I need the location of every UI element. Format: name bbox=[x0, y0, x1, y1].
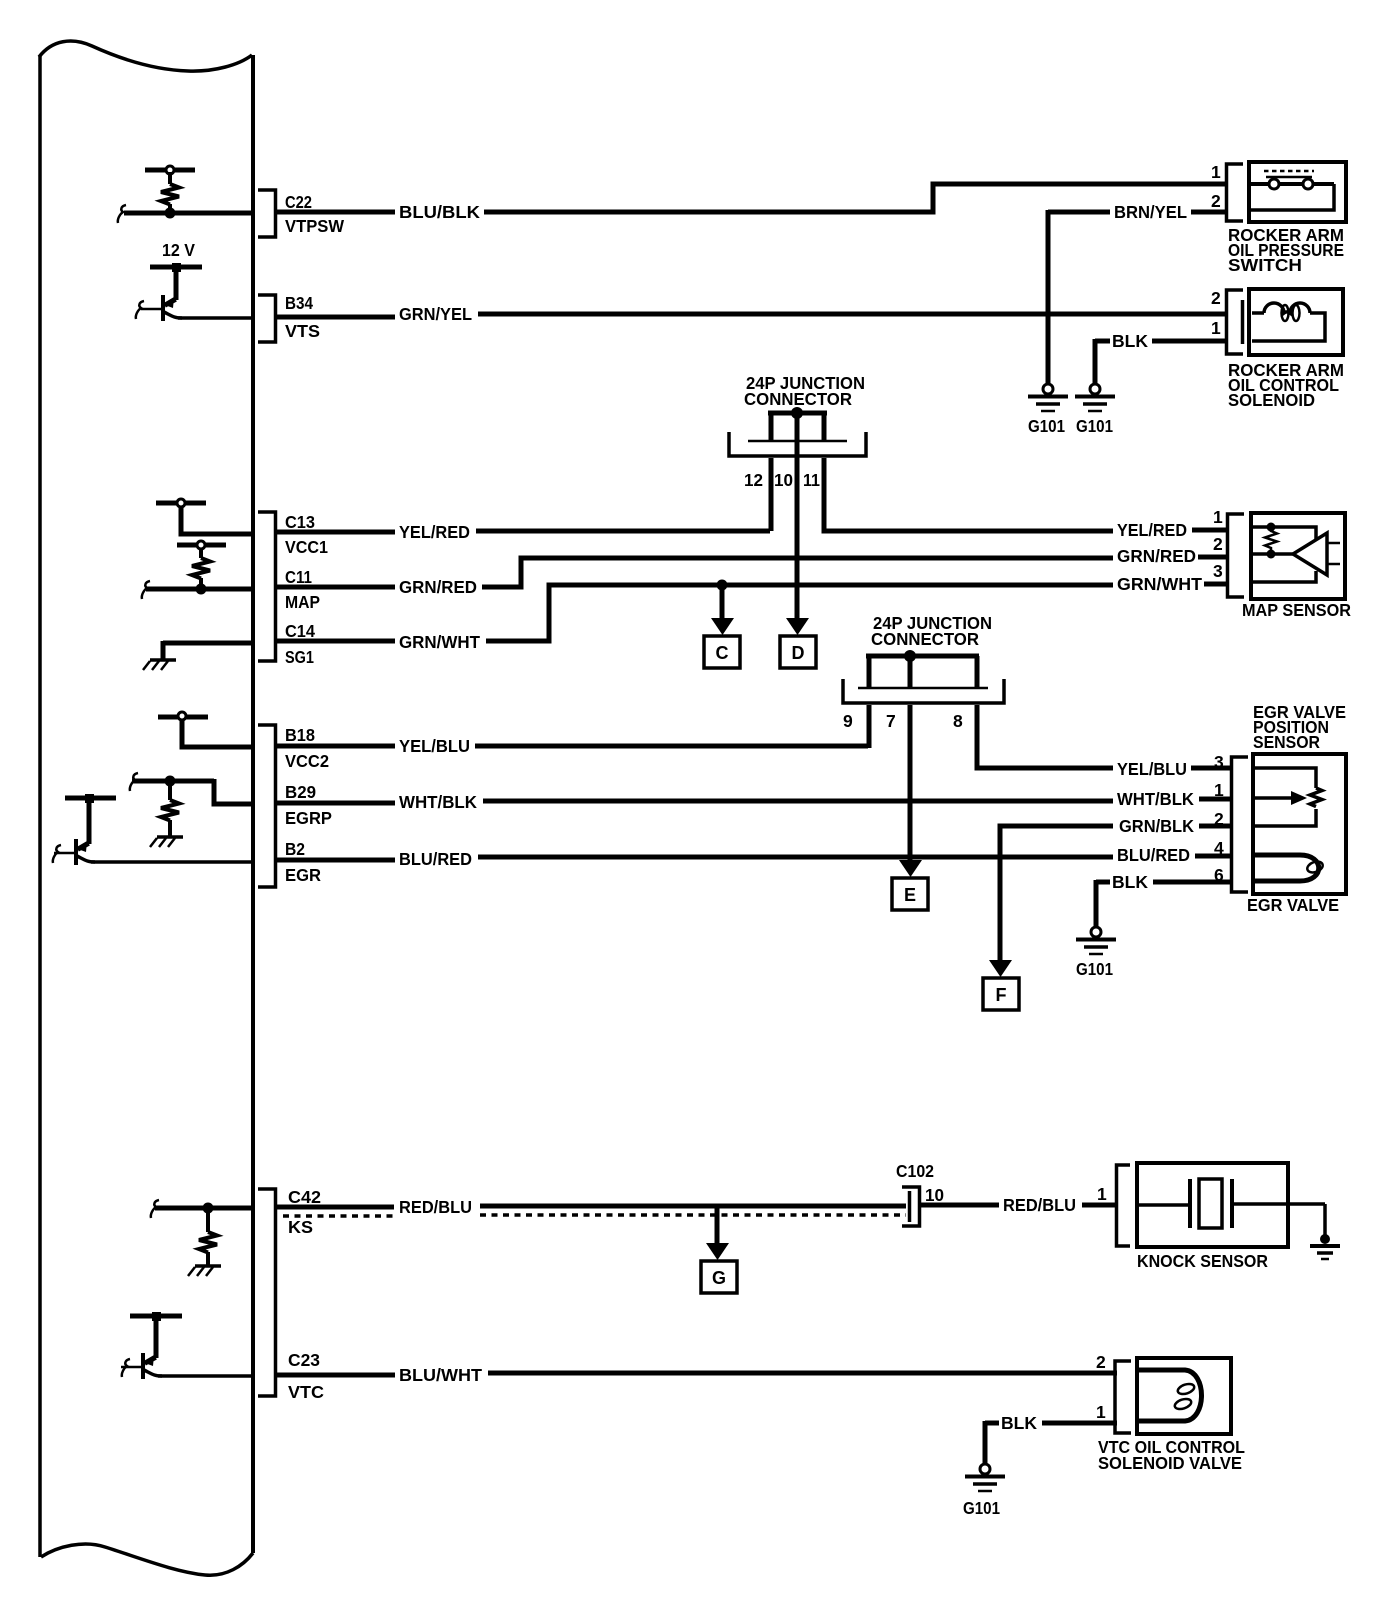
wire BLK from EGR valve pin 6 to ground bbox=[1096, 872, 1233, 927]
svg-text:RED/BLU: RED/BLU bbox=[1003, 1195, 1076, 1215]
pin label C13 / VCC1 bbox=[285, 512, 328, 557]
svg-text:2: 2 bbox=[1211, 191, 1221, 211]
svg-text:11: 11 bbox=[803, 470, 820, 490]
VTC oil control solenoid connector bbox=[1115, 1361, 1131, 1433]
svg-text:BLU/RED: BLU/RED bbox=[399, 849, 472, 869]
svg-text:MAP SENSOR: MAP SENSOR bbox=[1242, 600, 1351, 620]
pin 1 (rocker arm oil pressure switch) bbox=[1211, 162, 1221, 182]
wire junction pin 8 drop, YEL/BLU to EGR sensor pin 3 bbox=[977, 705, 1233, 779]
EGR connector pin 2 label bbox=[1214, 809, 1224, 829]
svg-text:EGR: EGR bbox=[285, 865, 321, 885]
svg-text:10: 10 bbox=[925, 1185, 944, 1205]
arrowhead to C bbox=[711, 618, 734, 635]
svg-text:2: 2 bbox=[1211, 288, 1221, 308]
svg-text:G101: G101 bbox=[1076, 959, 1113, 979]
svg-text:GRN/YEL: GRN/YEL bbox=[399, 304, 472, 324]
pin 7 label bbox=[886, 711, 896, 731]
svg-text:G101: G101 bbox=[1028, 416, 1065, 436]
wire GRN/BLK from EGR sensor pin 2 to connector F bbox=[1000, 816, 1233, 961]
pin bracket B18/B29/B2 group bbox=[258, 725, 276, 887]
pin bracket C42/C23 group bbox=[258, 1189, 276, 1396]
pin bracket C22 bbox=[258, 190, 276, 237]
ground (knock sensor) bbox=[1310, 1204, 1340, 1259]
svg-text:C42: C42 bbox=[288, 1187, 321, 1207]
svg-text:2: 2 bbox=[1213, 534, 1223, 554]
svg-text:GRN/BLK: GRN/BLK bbox=[1119, 816, 1194, 836]
svg-text:MAP: MAP bbox=[285, 592, 320, 612]
pin bracket C13/C11/C14 group bbox=[258, 512, 276, 661]
pin 2 (rocker arm oil control solenoid) bbox=[1211, 288, 1221, 308]
internal wire to pin C23 bbox=[158, 1374, 253, 1378]
wire junction pin 10 drop to connector C bbox=[795, 441, 800, 620]
pin bracket B34 bbox=[258, 295, 276, 342]
rocker arm oil pressure switch bbox=[1228, 162, 1346, 275]
wire BLU/RED from B2 to EGR valve pin 4 bbox=[276, 845, 1233, 869]
wire YEL/RED from C13 to 24P junction connector pin 12 bbox=[276, 522, 770, 542]
svg-text:WHT/BLK: WHT/BLK bbox=[1117, 789, 1194, 809]
wire YEL/BLU from B18 to 24P junction connector pin 9 bbox=[276, 736, 868, 756]
svg-text:12: 12 bbox=[744, 470, 763, 490]
ground G101 (switch) bbox=[1028, 384, 1068, 436]
svg-text:3: 3 bbox=[1214, 752, 1224, 772]
junction dot on C11 internal wire bbox=[196, 584, 207, 595]
svg-text:BLU/BLK: BLU/BLK bbox=[399, 202, 480, 222]
svg-text:C22: C22 bbox=[285, 192, 312, 212]
svg-text:9: 9 bbox=[843, 711, 853, 731]
svg-text:1: 1 bbox=[1214, 780, 1224, 800]
off-page connector E bbox=[892, 878, 928, 910]
transistor Q (EGR driver) bbox=[53, 798, 95, 865]
arrowhead to F bbox=[989, 960, 1012, 977]
wire GRN/WHT from C14 to MAP sensor pin 3 bbox=[276, 584, 1229, 652]
off-page connector C bbox=[704, 636, 740, 668]
svg-text:YEL/RED: YEL/RED bbox=[399, 522, 470, 542]
svg-text:BLK: BLK bbox=[1001, 1413, 1037, 1433]
svg-text:C102: C102 bbox=[896, 1161, 934, 1181]
svg-text:EGRP: EGRP bbox=[285, 808, 332, 828]
svg-text:8: 8 bbox=[953, 711, 963, 731]
transistor Q (VTC driver) bbox=[121, 1316, 162, 1379]
wire BLK from VTC solenoid pin 1 to ground bbox=[985, 1413, 1117, 1464]
wire RED/BLU from C102 to knock sensor pin 1 bbox=[921, 1195, 1118, 1215]
svg-text:SOLENOID: SOLENOID bbox=[1228, 390, 1315, 410]
internal wire to pin C22 bbox=[124, 211, 253, 216]
wire BLK from solenoid pin 1 to ground bbox=[1095, 331, 1228, 384]
svg-text:2: 2 bbox=[1096, 1352, 1106, 1372]
svg-text:KS: KS bbox=[288, 1217, 313, 1237]
MAP sensor pin 3 label bbox=[1213, 561, 1223, 581]
wire label GRN/RED (right) bbox=[1117, 546, 1196, 566]
internal signal ground at pin C14 bbox=[143, 641, 253, 670]
12 V supply bar for driver transistor at B34 bbox=[150, 240, 202, 272]
MAP sensor bbox=[1242, 513, 1351, 620]
pin label C42 / KS bbox=[288, 1187, 321, 1237]
internal wire to pin C11 bbox=[146, 587, 253, 592]
pin label B2 / EGR bbox=[285, 839, 321, 885]
internal wire to pin B34 bbox=[178, 316, 253, 320]
internal squiggle lead C22 bbox=[118, 205, 126, 223]
wire junction pin 11 drop, YEL/RED to MAP sensor pin 1 bbox=[824, 458, 1229, 531]
svg-text:BRN/YEL: BRN/YEL bbox=[1114, 202, 1187, 222]
pin label C23 / VTC bbox=[288, 1350, 324, 1402]
svg-text:B2: B2 bbox=[285, 839, 305, 859]
wire BLU/WHT from C23 to VTC solenoid pin 2 bbox=[276, 1365, 1117, 1385]
rocker arm oil pressure switch connector bbox=[1227, 164, 1244, 221]
svg-text:GRN/WHT: GRN/WHT bbox=[399, 632, 480, 652]
knock sensor pin 1 label bbox=[1097, 1184, 1107, 1204]
internal supply and resistor at pin C11 bbox=[177, 541, 226, 589]
supply bar for EGR driver transistor at B2 bbox=[65, 794, 116, 803]
svg-text:7: 7 bbox=[886, 711, 896, 731]
pin label C11 / MAP bbox=[285, 567, 320, 612]
svg-text:1: 1 bbox=[1211, 318, 1221, 338]
pin 11 label bbox=[803, 470, 820, 490]
rocker arm oil control solenoid (coil) bbox=[1228, 289, 1344, 410]
EGR connector pin 4 label bbox=[1214, 838, 1224, 858]
svg-text:BLK: BLK bbox=[1112, 872, 1148, 892]
wire junction pin 9 drop to YEL/BLU bbox=[867, 705, 872, 748]
wire GRN/YEL from B34 to rocker arm oil control solenoid pin 2 bbox=[276, 304, 1228, 324]
in-line connector C102 bbox=[896, 1161, 934, 1226]
pull-up resistor network at pin C22 (supply bar, circle tap, resistor) bbox=[145, 166, 195, 213]
pin label B18 / VCC2 bbox=[285, 725, 329, 771]
ECM module body (torn-edge block) bbox=[39, 41, 253, 1575]
ground G101 (solenoid) bbox=[1075, 384, 1115, 436]
pin 10 label bbox=[774, 470, 793, 490]
EGR connector pin 6 label bbox=[1214, 865, 1224, 885]
svg-text:C11: C11 bbox=[285, 567, 312, 587]
pin label B34 / VTS bbox=[285, 293, 320, 341]
svg-text:KNOCK SENSOR: KNOCK SENSOR bbox=[1137, 1251, 1268, 1271]
24P junction connector (pins 9/7/8) bbox=[843, 613, 1004, 703]
svg-text:SWITCH: SWITCH bbox=[1228, 255, 1302, 275]
wire junction pin 12 drop to YEL/RED bbox=[769, 458, 774, 531]
pin 8 label bbox=[953, 711, 963, 731]
pin 2 (rocker arm oil pressure switch) bbox=[1211, 191, 1221, 211]
MAP sensor pin 2 label bbox=[1213, 534, 1223, 554]
VTC oil control solenoid valve (coil) bbox=[1098, 1358, 1245, 1473]
svg-text:C23: C23 bbox=[288, 1350, 320, 1370]
arrowhead to D bbox=[786, 618, 809, 635]
pin 12 label bbox=[744, 470, 763, 490]
svg-text:GRN/RED: GRN/RED bbox=[1117, 546, 1196, 566]
ground G101 (VTC solenoid) bbox=[963, 1464, 1005, 1518]
svg-text:F: F bbox=[996, 985, 1007, 1005]
supply bar for VTC driver transistor at C23 bbox=[130, 1312, 182, 1321]
svg-text:G: G bbox=[712, 1268, 726, 1288]
knock sensor (piezo element) bbox=[1137, 1163, 1325, 1271]
svg-text:CONNECTOR: CONNECTOR bbox=[744, 389, 852, 409]
pin label B29 / EGRP bbox=[285, 782, 332, 828]
svg-text:1: 1 bbox=[1213, 507, 1223, 527]
svg-text:C: C bbox=[716, 643, 729, 663]
svg-text:4: 4 bbox=[1214, 838, 1224, 858]
svg-text:G101: G101 bbox=[963, 1498, 1000, 1518]
internal squiggle lead C11 bbox=[142, 581, 150, 599]
wire junction pin 7 drop to connector E bbox=[908, 705, 913, 861]
svg-text:1: 1 bbox=[1097, 1184, 1107, 1204]
5V reference at pin C13 (supply bar with circle) bbox=[156, 499, 253, 534]
internal wire to pin B2 bbox=[91, 860, 253, 864]
svg-text:SENSOR: SENSOR bbox=[1253, 732, 1320, 752]
pin label C22 / VTPSW bbox=[285, 192, 344, 236]
VTC solenoid pin 2 label bbox=[1096, 1352, 1106, 1372]
transistor Q (VTS driver) bbox=[136, 267, 182, 321]
svg-text:GRN/RED: GRN/RED bbox=[399, 577, 477, 597]
svg-text:VTPSW: VTPSW bbox=[285, 216, 344, 236]
shield drop wire to connector G bbox=[715, 1206, 720, 1244]
EGR valve position sensor heading bbox=[1253, 702, 1346, 752]
svg-text:VTS: VTS bbox=[285, 321, 320, 341]
wire label YEL/RED (right) bbox=[1117, 520, 1187, 540]
svg-text:1: 1 bbox=[1211, 162, 1221, 182]
svg-text:CONNECTOR: CONNECTOR bbox=[871, 629, 979, 649]
svg-text:EGR VALVE: EGR VALVE bbox=[1247, 895, 1339, 915]
svg-text:GRN/WHT: GRN/WHT bbox=[1117, 574, 1202, 594]
pin 9 label bbox=[843, 711, 853, 731]
arrowhead to G bbox=[706, 1243, 729, 1260]
EGR valve connector bbox=[1232, 757, 1249, 892]
svg-text:RED/BLU: RED/BLU bbox=[399, 1197, 472, 1217]
svg-text:D: D bbox=[792, 643, 805, 663]
svg-text:YEL/RED: YEL/RED bbox=[1117, 520, 1187, 540]
MAP sensor connector bbox=[1228, 514, 1245, 597]
EGR valve position sensor / EGR valve bbox=[1247, 754, 1346, 915]
svg-text:C13: C13 bbox=[285, 512, 315, 532]
svg-text:B34: B34 bbox=[285, 293, 313, 313]
svg-text:E: E bbox=[904, 885, 916, 905]
svg-text:B29: B29 bbox=[285, 782, 316, 802]
svg-text:VTC: VTC bbox=[288, 1382, 324, 1402]
internal resistor network at pin C42 bbox=[151, 1200, 253, 1276]
pin label C14 / SG1 bbox=[285, 621, 315, 667]
svg-text:YEL/BLU: YEL/BLU bbox=[399, 736, 470, 756]
off-page connector F bbox=[983, 978, 1019, 1010]
svg-text:3: 3 bbox=[1213, 561, 1223, 581]
wire RED/BLU (knock sensor signal) from C42 to C102 bbox=[276, 1197, 906, 1217]
svg-text:BLU/WHT: BLU/WHT bbox=[399, 1365, 482, 1385]
svg-text:10: 10 bbox=[774, 470, 793, 490]
svg-text:G101: G101 bbox=[1076, 416, 1113, 436]
svg-text:VCC2: VCC2 bbox=[285, 751, 329, 771]
knock sensor connector bracket bbox=[1117, 1165, 1131, 1246]
svg-text:1: 1 bbox=[1096, 1402, 1106, 1422]
svg-text:SG1: SG1 bbox=[285, 647, 314, 667]
junction dot on GRN/WHT wire bbox=[717, 580, 728, 591]
off-page connector G bbox=[701, 1261, 737, 1293]
wire BLU/BLK from C22 to rocker arm oil pressure switch pin 1 bbox=[276, 184, 1228, 222]
svg-text:VCC1: VCC1 bbox=[285, 537, 328, 557]
svg-text:BLU/RED: BLU/RED bbox=[1117, 845, 1190, 865]
svg-text:B18: B18 bbox=[285, 725, 315, 745]
pin 10 label (C102) bbox=[925, 1185, 944, 1205]
rocker arm oil control solenoid connector bbox=[1227, 290, 1244, 354]
EGR connector pin 1 label bbox=[1214, 780, 1224, 800]
MAP sensor pin 1 label bbox=[1213, 507, 1223, 527]
wire BRN/YEL from switch pin 2 to ground bbox=[1048, 202, 1228, 384]
pin 1 (rocker arm oil control solenoid) bbox=[1211, 318, 1221, 338]
svg-text:C14: C14 bbox=[285, 621, 315, 641]
EGR connector pin 3 label bbox=[1214, 752, 1224, 772]
wire drop to connector C bbox=[720, 585, 725, 620]
shield dashed line along knock sensor wire bbox=[283, 1215, 906, 1216]
internal resistor network at pin B29 bbox=[130, 773, 253, 847]
wire label GRN/WHT (right) bbox=[1117, 574, 1202, 594]
arrowhead to E bbox=[899, 860, 922, 877]
svg-text:YEL/BLU: YEL/BLU bbox=[1117, 759, 1187, 779]
wire WHT/BLK from B29 to EGR valve position sensor pin 1 bbox=[276, 789, 1233, 812]
svg-text:BLK: BLK bbox=[1112, 331, 1148, 351]
svg-text:SOLENOID VALVE: SOLENOID VALVE bbox=[1098, 1453, 1242, 1473]
junction dot on C22 internal wire bbox=[165, 208, 176, 219]
svg-text:12 V: 12 V bbox=[162, 240, 195, 260]
VTC solenoid pin 1 label bbox=[1096, 1402, 1106, 1422]
svg-text:WHT/BLK: WHT/BLK bbox=[399, 792, 477, 812]
wire GRN/RED from C11 to MAP sensor pin 2 bbox=[276, 557, 1229, 597]
ground G101 (EGR valve) bbox=[1076, 927, 1116, 979]
off-page connector D bbox=[780, 636, 816, 668]
5V reference at pin B18 bbox=[158, 712, 253, 747]
24P junction connector (pins 12/10/11) bbox=[729, 373, 866, 456]
